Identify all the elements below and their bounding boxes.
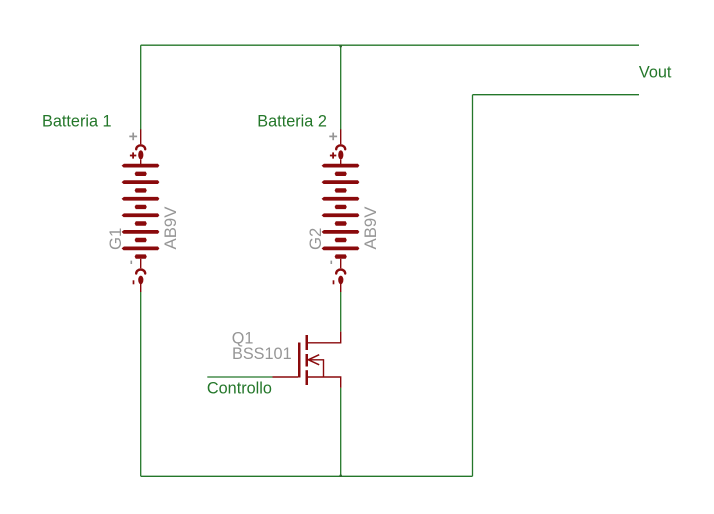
G2 pin - gray label [330, 261, 332, 264]
G1 bottom clip arc [136, 270, 145, 274]
wire top rail [141, 44, 639, 46]
G1 pin - wire [140, 284, 142, 292]
G1 plus sign [130, 152, 136, 158]
svg-text:AB9V: AB9V [361, 206, 380, 250]
junction bottom rail / source [339, 474, 342, 477]
G1 cell plates [122, 164, 160, 259]
svg-text:Vout: Vout [639, 64, 672, 82]
Q1 bulk connection [308, 360, 324, 377]
Q1 gate bar [298, 343, 301, 378]
transistor Q1 BSS101 [232, 329, 341, 387]
Q1 gate lead [273, 376, 299, 378]
G1 stud to plate wire [140, 160, 142, 166]
wire battery1 top vertical [140, 45, 142, 129]
wire battery1 bottom vertical [140, 292, 142, 477]
G1 top clip arc [136, 145, 145, 149]
svg-text:G2: G2 [306, 228, 325, 250]
svg-text:Batteria 2: Batteria 2 [257, 113, 327, 131]
G1 top clip stud [138, 150, 143, 159]
wire battery2 top vertical [340, 45, 342, 129]
svg-text:BSS101: BSS101 [232, 345, 292, 363]
svg-text:AB9V: AB9V [161, 206, 180, 250]
G2 cell plates [322, 164, 360, 259]
G2 top clip arc [336, 145, 345, 149]
battery G2 [306, 129, 380, 292]
svg-text:Batteria 1: Batteria 1 [42, 113, 112, 131]
G2 pin + gray label [329, 133, 337, 141]
wire gate Controllo [207, 376, 272, 378]
battery G1 [106, 129, 180, 292]
wire source to bottom rail [340, 388, 342, 477]
wire battery2 bottom to drain [340, 292, 342, 332]
Q1 channel dash bottom [306, 370, 309, 385]
G2 pin + wire [340, 129, 342, 144]
G2 bottom clip stud [338, 276, 343, 285]
G1 plate to clip wire [140, 259, 142, 268]
G2 plus sign [330, 152, 336, 158]
Q1 bulk arrow [308, 355, 319, 365]
G2 bottom clip arc [336, 270, 345, 274]
G1 minus sign [133, 280, 135, 284]
wire Vout branch [473, 94, 640, 96]
Q1 channel dash middle [306, 354, 309, 367]
G1 pin + gray label [129, 133, 137, 141]
Q1 source lead [308, 377, 341, 388]
G2 pin - wire [340, 284, 342, 292]
G2 plate to clip wire [340, 259, 342, 268]
G1 pin + wire [140, 129, 142, 144]
G2 top clip stud [338, 150, 343, 159]
wire bottom rail [141, 475, 473, 477]
G2 minus sign [333, 280, 335, 284]
G1 bottom clip stud [138, 276, 143, 285]
Q1 channel dash top [306, 335, 309, 350]
svg-text:G1: G1 [106, 228, 125, 250]
wire right vertical [472, 95, 474, 477]
G1 pin - gray label [130, 261, 132, 264]
G2 stud to plate wire [340, 160, 342, 166]
Q1 drain lead [308, 332, 341, 343]
svg-text:Controllo: Controllo [207, 379, 272, 397]
junction top rail / battery2 [339, 45, 342, 48]
